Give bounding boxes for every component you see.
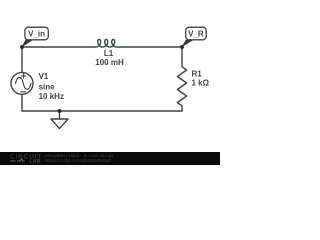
svg-text:V1: V1 (39, 72, 49, 81)
svg-text:L1: L1 (104, 49, 114, 58)
svg-text:V_R: V_R (188, 30, 204, 39)
svg-text:V_in: V_in (28, 30, 45, 39)
svg-text:R1: R1 (192, 69, 203, 78)
svg-text:http;//circuitlab.com/c8b425b2: http;//circuitlab.com/c8b425b26u0s2/ (45, 158, 112, 163)
svg-text:LAB: LAB (30, 159, 41, 165)
svg-text:1 kΩ: 1 kΩ (192, 79, 210, 88)
svg-text:sine: sine (39, 83, 56, 92)
svg-text:100 mH: 100 mH (95, 58, 124, 67)
svg-text:10 kHz: 10 kHz (39, 92, 64, 101)
